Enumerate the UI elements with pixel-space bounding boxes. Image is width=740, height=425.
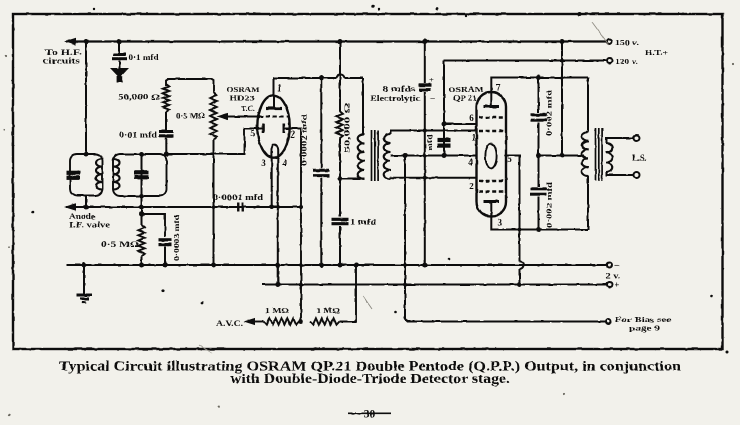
terminal bias (606, 319, 611, 324)
pin 2 label V1 (290, 130, 295, 140)
caption line 1 (59, 360, 681, 375)
wire centre tap line (539, 155, 585, 157)
label plus 2v (614, 281, 619, 291)
output transformer secondary winding (606, 143, 612, 172)
wire AVC lead (253, 321, 264, 323)
label 0.1 mfd (129, 53, 159, 62)
pin 4 label V2 (468, 157, 473, 167)
node bypass/bus (163, 263, 168, 268)
wire bypass cap branch (142, 214, 166, 237)
label OSRAM HD23 (227, 85, 261, 103)
node 1M return/bus (354, 263, 359, 268)
terminal 150v (607, 39, 612, 44)
node T2 cap top (139, 152, 144, 157)
node 0.5M/bus (139, 263, 144, 268)
svg-text:1 mfd: 1 mfd (350, 218, 377, 227)
grid dashes lower V2 (479, 181, 504, 192)
svg-text:0·01 mfd: 0·01 mfd (119, 131, 158, 140)
wire 2v positive line (262, 283, 607, 285)
wire V1 anode (pin1) to transformer (274, 74, 364, 95)
label 1 mfd (350, 218, 377, 227)
capacitor T1 tuning (solid) (67, 173, 81, 178)
svg-text:+: + (430, 75, 434, 84)
anode 2 plate V2 (484, 202, 500, 217)
label minus 2v (614, 261, 620, 271)
label L.S. (632, 153, 647, 163)
node T2 cap bottom (139, 194, 144, 199)
svg-text:0·5 MΩ: 0·5 MΩ (176, 112, 205, 121)
output transformer primary winding (582, 132, 589, 176)
pin 2 label V2 (469, 181, 474, 191)
page number 30 (348, 409, 391, 421)
capacitor C screen bypass (solid) (438, 137, 451, 151)
wire 0.002 cap rail middle (538, 123, 540, 187)
label 0.002 mfd upper (vertical) (545, 89, 554, 136)
label page 9 (629, 324, 660, 333)
svg-text:I.F. valve: I.F. valve (69, 221, 111, 230)
wire 8mfd rail lower (424, 92, 426, 265)
node 0.01mfd/T2/diode wire (164, 152, 169, 157)
wire 0.5M top section (141, 207, 143, 225)
specks (32, 4, 729, 353)
label 1 Mohm right (316, 306, 340, 315)
svg-text:50,000 Ω: 50,000 Ω (118, 93, 161, 102)
node 8mfd/pin4 line (423, 154, 427, 158)
diode plate pin5 V1 (262, 124, 265, 134)
wire 8mfd rail upper (424, 42, 426, 84)
label 0.0002 mfd (vertical) (300, 113, 309, 166)
label 150 v. (615, 38, 639, 47)
label plus (430, 75, 434, 84)
interstage transformer secondary winding (384, 134, 391, 179)
svg-text:0·0001 mfd: 0·0001 mfd (213, 193, 264, 202)
wire HT+ 150v top rail (66, 40, 607, 42)
wire to primary bottom (340, 178, 365, 180)
wire 0.0002 vertical (320, 78, 322, 265)
node grid/envelope (257, 115, 261, 119)
node pot/anode-line crossing (212, 205, 216, 209)
svg-text:4: 4 (282, 158, 287, 168)
wire secondary top lead (QP21 grid1) (391, 131, 477, 135)
capacitor C 0.0003 mfd (159, 240, 172, 245)
filament V2 (485, 144, 496, 169)
node bus/ground tap (82, 263, 87, 268)
svg-text:L.S.: L.S. (632, 153, 647, 163)
svg-text:T.C.: T.C. (241, 104, 255, 113)
terminal L.S. top (634, 135, 640, 141)
node T2/anode line (139, 205, 144, 210)
wire bypass cap bottom (164, 247, 166, 266)
pin 5 label V1 (250, 129, 255, 139)
node bias tap on pin4 line (403, 153, 408, 158)
scan crease marks (199, 22, 609, 353)
svg-text:2 v.: 2 v. (606, 272, 621, 281)
resistor R 50,000 ohm (feed) (336, 111, 343, 139)
label A.V.C. (216, 319, 243, 328)
ground symbol (77, 295, 93, 302)
pin 3 label V1 (261, 158, 266, 168)
svg-text:30: 30 (364, 409, 376, 421)
wire pin2 down to AVC (285, 129, 301, 322)
node 1M junction (298, 319, 303, 324)
wire 50k feed lower (339, 139, 341, 217)
label T.C. (241, 104, 255, 113)
wire 50k to 0.01mfd (165, 112, 167, 130)
label To H.F. circuits (43, 48, 82, 66)
svg-text:with Double-Diode-Triode Detec: with Double-Diode-Triode Detector stage. (230, 372, 510, 387)
svg-text:3: 3 (498, 218, 503, 228)
chassis ground arrow (110, 68, 129, 83)
potentiometer R 0.5 Mohm (210, 92, 216, 140)
wire HT feed vertical (561, 42, 563, 156)
node pin7 line/HT feed crossing (560, 76, 564, 80)
wire 2v negative bus (67, 264, 607, 266)
node anode wire/0.0002 tap (319, 76, 324, 81)
resistor R 0.5 Mohm (diode load) (138, 225, 144, 256)
pin 1 label V2 (471, 133, 476, 143)
interstage transformer primary winding (358, 134, 365, 179)
wire T1 bottom lead (85, 196, 87, 208)
node HT/feed tap (560, 39, 565, 44)
node 1mfd/bus (338, 263, 343, 268)
node HT/8mfd tap (422, 39, 427, 44)
coil T2 winding (114, 159, 120, 190)
svg-text:6: 6 (469, 113, 474, 123)
node filament leg/bus (275, 263, 280, 268)
svg-text:page 9: page 9 (629, 324, 660, 333)
wire 0.002 cap rail lower (538, 197, 540, 230)
wire pin5 to T2 top (diode detector) (166, 129, 262, 155)
node filament leg/+line (275, 282, 280, 287)
capacitor C 8 mfds electrolytic (419, 85, 432, 90)
grid (top cap) dashed line V1 (259, 116, 289, 118)
wire 0.01mfd to T2 top (165, 138, 167, 155)
svg-text:–: – (614, 261, 620, 271)
svg-text:HD23: HD23 (230, 94, 255, 103)
wire primary top lead (587, 78, 589, 133)
wire grid to pot wiper (224, 116, 259, 118)
arrow to H.F. circuits (64, 38, 76, 45)
wire bias feed vertical (405, 156, 606, 322)
svg-text:150 v.: 150 v. (615, 38, 639, 47)
valve V2 OSRAM QP21 envelope (477, 92, 507, 217)
node pot/bus (211, 263, 216, 268)
pin 3 label V2 (498, 218, 503, 228)
pin 1 label V1 (278, 83, 283, 93)
wire 0.5M bottom lead (141, 256, 143, 265)
arrow anode line end (64, 203, 76, 210)
capacitor C 0.01 mfd (159, 132, 174, 136)
node HT/IF junction (84, 39, 89, 44)
wire pot bottom (213, 140, 215, 265)
svg-text:8 mfds: 8 mfds (383, 85, 416, 94)
wire 1mfd bottom lead (339, 226, 341, 265)
anode plate of V1 (266, 96, 282, 109)
wire IF primary top lead (85, 42, 87, 155)
terminal 120v (607, 58, 612, 63)
label 0.0003 mfd (vertical) (172, 214, 181, 261)
svg-text:circuits: circuits (43, 57, 80, 66)
node screen rail/pin4 line (442, 153, 447, 158)
label 50,000 ohm (vertical) (343, 103, 352, 153)
resistor R 1 Mohm (right) (310, 318, 340, 324)
svg-text:0·0003 mfd: 0·0003 mfd (172, 214, 181, 261)
svg-text:2: 2 (469, 181, 474, 191)
node bypass branch tap (139, 212, 144, 217)
capacitor C 0.002 mfd lower (531, 189, 547, 194)
capacitor C 0.0002 mfd (313, 170, 330, 175)
node HT/0.1mfd junction (117, 39, 122, 44)
node bias vertical/bus crossing (403, 263, 407, 267)
label 0.5 Mohm (left) (101, 240, 140, 249)
label 2 v. (606, 272, 621, 281)
node T1 top (84, 152, 89, 157)
wire anode2 (pin3) bottom line (491, 217, 588, 230)
label 0.0001 mfd (213, 193, 264, 202)
label 120 v. (615, 57, 638, 66)
svg-text:1 MΩ: 1 MΩ (265, 306, 289, 315)
svg-text:1: 1 (278, 83, 283, 93)
resistor R 50,000 ohm (AVC) (163, 84, 169, 112)
wire pin5 filament lead (506, 156, 524, 285)
wire 120v rail (444, 60, 607, 62)
capacitor C 0.0001 mfd (238, 203, 243, 212)
label For Bias see (615, 315, 672, 324)
node 8mfd/grid2 line (423, 176, 427, 180)
arrow AVC (244, 318, 256, 325)
node pin5/+line (517, 282, 522, 287)
interstage transformer core (372, 130, 379, 181)
node bias vertical/+line crossing (403, 283, 407, 287)
label Anode I.F. valve (69, 212, 111, 230)
grid dashes upper V2 (479, 118, 504, 132)
node screen/pin6 tee (442, 122, 447, 127)
label 0.002 mfd lower (vertical) (545, 181, 554, 228)
label minus (430, 93, 435, 102)
svg-text:2: 2 (290, 130, 295, 140)
wire 0.002 cap rail upper (538, 78, 540, 113)
svg-text:1 MΩ: 1 MΩ (316, 306, 340, 315)
capacitor C 0.1 mfd (112, 55, 127, 59)
svg-text:50,000 Ω: 50,000 Ω (343, 103, 352, 153)
node feed/centre tap (560, 153, 565, 158)
wire filament leg pin3 (271, 157, 273, 207)
wire secondary centre tap (pin4 line) (391, 155, 477, 157)
label 0.01 mfd (119, 131, 158, 140)
wire T2 tuning vertical (141, 154, 143, 207)
wire bus-plus link (277, 265, 279, 285)
label H.T.+ (645, 48, 669, 57)
resistor R 1 Mohm (left) (264, 318, 299, 324)
node filament/0.0001 line (270, 205, 274, 209)
label 8 mfds Electrolytic (370, 85, 421, 104)
svg-text:4: 4 (468, 157, 473, 167)
svg-text:5: 5 (250, 129, 255, 139)
wire anode line (66, 206, 301, 208)
capacitor T2 tuning (solid) (134, 172, 149, 177)
wire pin6 line (444, 123, 477, 125)
label mfd (vertical) (425, 133, 434, 150)
label 1 Mohm left (265, 306, 289, 315)
node feed/120v crossing (560, 59, 564, 63)
wire 1M to bus (340, 265, 357, 322)
wire ground lead (83, 265, 85, 294)
capacitor C 1 mfd (332, 219, 349, 223)
svg-text:7: 7 (496, 83, 501, 93)
terminal 2v positive (607, 282, 612, 287)
node pin5/anode2 crossing (518, 228, 522, 232)
wire filament leg pin4 (277, 157, 279, 285)
label 50,000 ohm (118, 93, 161, 102)
node bus/pin2 vertical crossing (299, 263, 303, 267)
wire primary bottom lead (587, 176, 589, 230)
node 0.0001 line/pin2 vertical (299, 205, 303, 209)
filament V1 (271, 144, 278, 158)
arrow pot wiper (217, 113, 229, 120)
coil T1 winding (96, 159, 102, 190)
svg-text:0·5 MΩ: 0·5 MΩ (101, 240, 140, 249)
svg-text:120 v.: 120 v. (615, 57, 638, 66)
border frame (13, 14, 723, 349)
terminal 2v negative (607, 263, 612, 268)
node 8mfd/grid1 line (423, 129, 427, 133)
wire pot box top (166, 79, 214, 92)
svg-text:mfd: mfd (425, 133, 434, 150)
svg-text:3: 3 (261, 158, 266, 168)
node T1 bottom / anode line (84, 205, 89, 210)
svg-text:Electrolytic: Electrolytic (370, 94, 421, 103)
wire 0.1mfd bottom lead (119, 61, 121, 69)
node pin3 line/cap rail (536, 227, 541, 232)
svg-text:A.V.C.: A.V.C. (216, 319, 243, 328)
wire secondary top lead (607, 138, 635, 143)
svg-text:0·1 mfd: 0·1 mfd (129, 53, 159, 62)
IF transformer T1 box (70, 154, 103, 196)
svg-text:+: + (614, 281, 619, 291)
diode plate pin2 V1 (282, 124, 285, 134)
svg-text:0·002 mfd: 0·002 mfd (545, 181, 554, 228)
node HT/50k tap (338, 39, 343, 44)
wire anode1 (pin7) top line (491, 78, 588, 93)
IF transformer T2 box (113, 154, 167, 196)
node 50k/primary bottom (338, 176, 343, 181)
node 0.0002/bus (319, 263, 324, 268)
wire primary top lead (362, 78, 364, 134)
svg-text:0·002 mfd: 0·002 mfd (545, 89, 554, 136)
wire secondary bottom lead (QP21 grid2) (391, 178, 477, 179)
node +line/pin2 vertical crossing (299, 283, 303, 287)
pin 6 label V2 (469, 113, 474, 123)
node cap rail/centre tap (536, 153, 541, 158)
caption line 2 (230, 372, 510, 387)
label OSRAM QP 21 (449, 85, 485, 103)
capacitor C 0.002 mfd upper (531, 115, 547, 120)
terminal L.S. bottom (634, 172, 640, 178)
valve V1 OSRAM HD23 envelope (257, 95, 289, 157)
wire 0.1mfd top lead (118, 42, 120, 54)
pin 4 label V1 (282, 158, 287, 168)
svg-text:0·0002 mfd: 0·0002 mfd (300, 113, 309, 166)
label 0.5 Mohm (pot) (176, 112, 205, 121)
wire 0.0001 line segments (142, 206, 302, 208)
pin 5 label V2 (507, 154, 512, 164)
svg-text:H.T.+: H.T.+ (645, 48, 669, 57)
wire 50k feed upper (339, 42, 341, 112)
wire secondary bottom lead (607, 172, 635, 175)
wire screen feed vertical (443, 61, 445, 156)
anode 1 plate V2 (484, 92, 500, 107)
node 8mfd/bus (422, 263, 427, 268)
pin 7 label V2 (496, 83, 501, 93)
svg-text:–: – (430, 93, 435, 102)
node pin7 line/cap rail (536, 75, 541, 80)
svg-text:QP 21: QP 21 (453, 94, 477, 103)
svg-text:1: 1 (471, 133, 476, 143)
output transformer core (596, 128, 603, 181)
